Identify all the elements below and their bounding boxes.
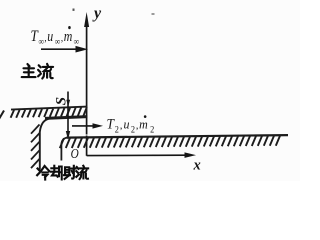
upper wall top line	[11, 107, 87, 110]
svg-text:T: T	[107, 117, 116, 133]
S dimension lower arrowhead (onto bottom wall)	[66, 131, 70, 140]
speck	[152, 13, 155, 15]
svg-text:m: m	[139, 117, 148, 132]
left wall hatching	[31, 125, 40, 169]
coolant jet label: hand-drawn CJK 冷却射流	[37, 166, 88, 180]
y-axis arrowhead	[84, 12, 89, 27]
bottom wall hatching	[60, 136, 280, 148]
svg-text:,: ,	[61, 32, 63, 44]
y-axis lower segment through bottom wall to origin	[86, 136, 88, 156]
bottom wall top line	[67, 135, 289, 138]
svg-text:S: S	[53, 97, 69, 105]
glyph 射	[64, 166, 76, 179]
S dimension leader line	[67, 92, 69, 139]
svg-text:,: ,	[44, 32, 46, 44]
x-axis arrowhead	[185, 152, 197, 158]
svg-text:∞: ∞	[38, 36, 44, 47]
upper wall bottom (slot lip) thick line	[45, 117, 87, 119]
svg-text:,: ,	[136, 120, 139, 131]
svg-text:T: T	[31, 28, 39, 45]
svg-text:2: 2	[131, 124, 135, 134]
coolant flow arrow T2	[72, 123, 103, 128]
glyph 流 (second occurrence)	[76, 166, 88, 179]
label T2 u2 m2 (coolant properties)	[107, 115, 155, 134]
svg-text:∞: ∞	[74, 36, 80, 47]
glyph 冷	[37, 166, 49, 179]
speck	[73, 9, 75, 11]
svg-text:∞: ∞	[55, 36, 61, 47]
outer channel wall (lip curve + vertical left wall)	[40, 119, 49, 170]
svg-text:u: u	[47, 28, 53, 44]
upper wall hatching	[11, 107, 87, 118]
S dimension upper arrowhead (onto wall top)	[66, 100, 70, 107]
svg-text:x: x	[193, 158, 201, 174]
main flow arrow	[41, 46, 88, 53]
svg-text:O: O	[71, 146, 79, 161]
y-axis shaft (upper segment)	[86, 21, 88, 135]
svg-text:m: m	[64, 28, 73, 44]
svg-text:u: u	[124, 117, 130, 132]
left-edge wall mark	[0, 111, 4, 120]
label T-infinity u-infinity m-infinity (main stream properties)	[31, 26, 80, 47]
svg-text:2: 2	[150, 124, 154, 134]
glyph 却	[51, 166, 62, 180]
main-stream label: hand-drawn CJK 主流	[22, 64, 53, 79]
svg-text:,: ,	[120, 120, 123, 131]
glyph 主	[22, 64, 36, 77]
bottom wall left fillet + inner channel wall	[61, 137, 67, 160]
x-axis shaft	[87, 154, 186, 156]
svg-text:2: 2	[115, 124, 119, 134]
glyph 流	[38, 64, 53, 79]
svg-text:y: y	[92, 5, 102, 22]
